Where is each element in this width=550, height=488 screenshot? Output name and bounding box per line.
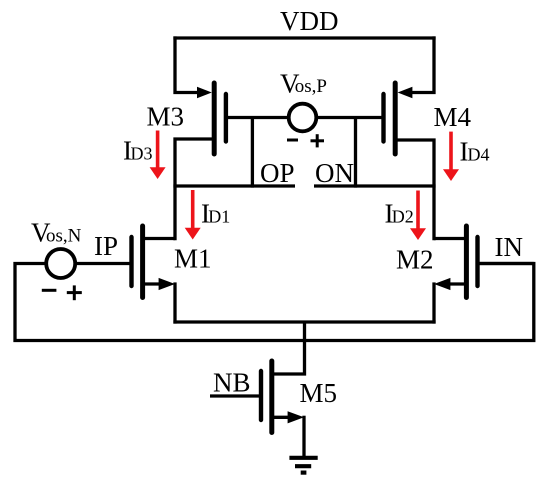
svg-text:M5: M5 (300, 378, 338, 408)
M2 source arrow (434, 278, 450, 290)
transistor M4 gate bar (381, 94, 385, 142)
wire VDD right vertical to M4 source (408, 36, 434, 92)
offset source Vos,P (289, 104, 317, 132)
M3 source arrow (197, 87, 212, 99)
wire M3 gate to Vos,P (226, 116, 290, 119)
wire Vos,N left loop (15, 264, 534, 341)
wire M3 drain (175, 139, 214, 240)
wire M1 source corner down (173, 282, 176, 323)
svg-text:D2: D2 (392, 207, 414, 227)
wire M3 gate drop to OP (251, 118, 254, 188)
wire M5 source corner down to ground (302, 416, 305, 456)
current arrow ID2 (416, 191, 420, 230)
current arrow ID3 (156, 131, 160, 170)
transistor M4 channel bar (393, 83, 398, 154)
wire M2 gate to IN (478, 262, 534, 265)
wire M5 source (272, 416, 291, 419)
transistor M3 channel bar (212, 83, 217, 154)
wire VDD left vertical to M3 source (175, 36, 201, 92)
M4 source arrow (398, 87, 413, 99)
Vos,N minus sign (42, 289, 57, 292)
svg-text:IP: IP (94, 231, 118, 261)
wire M2 source (447, 282, 466, 285)
svg-text:D1: D1 (208, 207, 230, 227)
wire Vos,N to M1 gate (IP) (75, 262, 132, 265)
svg-text:M2: M2 (396, 245, 434, 275)
svg-text:os,N: os,N (46, 226, 82, 247)
wire M1 source (143, 282, 162, 285)
svg-text:ON: ON (315, 158, 354, 188)
wire Vos,P to M4 gate (316, 116, 385, 119)
wire M4 drain (395, 140, 434, 240)
wire M4 gate drop to ON (354, 118, 357, 188)
svg-text:VDD: VDD (280, 6, 339, 36)
ground (289, 456, 317, 460)
M1 source arrow (159, 278, 175, 290)
wire M1 drain (143, 237, 175, 240)
wire M5 gate (NB) (210, 394, 261, 397)
transistor M5 channel bar (269, 361, 274, 433)
current arrow ID4 (449, 132, 453, 171)
svg-text:OP: OP (260, 158, 295, 188)
wire tail node down to M5 drain (272, 322, 305, 374)
svg-text:IN: IN (495, 232, 524, 262)
svg-text:M1: M1 (174, 244, 212, 274)
node OP rail (173, 184, 295, 187)
svg-text:D3: D3 (131, 144, 153, 164)
M5 source arrow (288, 411, 304, 423)
wire common source rail (173, 320, 435, 323)
Vos,P minus sign (287, 139, 298, 142)
svg-text:M3: M3 (147, 101, 185, 131)
wire M2 source corner down (432, 282, 435, 323)
transistor M1 gate bar (129, 237, 133, 286)
svg-text:os,P: os,P (295, 76, 327, 97)
svg-text:NB: NB (213, 368, 251, 398)
wire M2 drain (434, 237, 466, 240)
Vos,N plus sign (67, 291, 82, 294)
current arrow ID1 (191, 190, 195, 229)
Vos,P plus sign (311, 139, 325, 142)
svg-text:M4: M4 (434, 102, 472, 132)
transistor M2 gate bar (475, 237, 479, 286)
transistor M1 channel bar (140, 226, 145, 298)
transistor M3 gate bar (224, 94, 228, 142)
node ON rail (314, 184, 436, 187)
transistor M5 gate bar (259, 371, 263, 420)
wire VDD rail (173, 36, 435, 39)
svg-text:D4: D4 (468, 145, 490, 165)
offset source Vos,N (46, 249, 75, 278)
transistor M2 channel bar (464, 226, 469, 298)
